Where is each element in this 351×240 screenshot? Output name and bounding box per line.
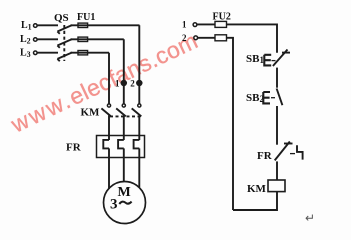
node 1 control terminal label bbox=[182, 20, 187, 30]
node 1 label bbox=[115, 79, 120, 89]
motor M bbox=[104, 182, 146, 224]
motor 3-phase tilde bbox=[119, 202, 131, 204]
wire L2 to QS bbox=[37, 38, 58, 40]
contactor KM main contact 1 bbox=[101, 104, 111, 117]
relay FR label bbox=[66, 142, 82, 154]
watermark www.elecfans.com bbox=[6, 27, 202, 138]
pushbutton SB2 (NO start button) bbox=[263, 89, 282, 106]
pushbutton SB1 label bbox=[246, 53, 264, 65]
fuse FU1 element 1 bbox=[78, 23, 88, 27]
wire SB1 to SB2 bbox=[276, 68, 278, 88]
pushbutton SB2 label bbox=[246, 92, 264, 104]
svg-text:L2: L2 bbox=[20, 34, 31, 46]
contactor KM linkage dashed line bbox=[110, 115, 141, 117]
node L2 label bbox=[20, 34, 31, 46]
svg-text:M: M bbox=[118, 185, 131, 200]
switch QS linkage dashed line bbox=[63, 25, 65, 61]
switch QS label bbox=[54, 12, 69, 24]
node 1 junction dot bbox=[122, 81, 127, 86]
return mark bbox=[305, 211, 315, 225]
coil KM bbox=[268, 180, 285, 192]
wire L3 to QS bbox=[37, 52, 58, 54]
wire SB2 to FR contact bbox=[276, 106, 278, 145]
node 2 control terminal bbox=[194, 36, 198, 40]
wire FR to motor phase1 bbox=[108, 148, 110, 189]
motor M label bbox=[110, 185, 131, 213]
svg-text:1: 1 bbox=[115, 79, 120, 89]
fuse FU2 element 2 bbox=[215, 35, 227, 41]
fuse FU1 label bbox=[77, 12, 95, 23]
relay FR contact (NC) bbox=[275, 142, 303, 161]
relay FR heater 1 bbox=[103, 140, 109, 149]
wire FR to motor phase3 bbox=[138, 148, 140, 187]
svg-text:QS: QS bbox=[54, 12, 69, 24]
svg-text:SB1: SB1 bbox=[246, 53, 264, 65]
switch QS pole 3 blade bbox=[57, 53, 72, 62]
relay FR contact label bbox=[257, 150, 273, 162]
node L2 terminal bbox=[34, 38, 38, 42]
contactor KM label bbox=[81, 107, 101, 119]
fuse FU2 label bbox=[213, 12, 231, 23]
svg-text:1: 1 bbox=[182, 20, 187, 30]
svg-text:KM: KM bbox=[247, 183, 267, 195]
pushbutton SB1 (NC stop button) bbox=[264, 50, 290, 67]
wire FU2 element2 to bottom rail bbox=[227, 38, 234, 210]
node 2 control terminal label bbox=[182, 33, 187, 43]
coil KM label bbox=[247, 183, 267, 195]
svg-text:L3: L3 bbox=[20, 48, 31, 60]
node L3 terminal bbox=[34, 51, 38, 55]
node L3 label bbox=[20, 48, 31, 60]
wire KM to FR phase3 bbox=[138, 116, 140, 141]
wire KM coil to bottom rail bbox=[233, 192, 277, 210]
contactor KM main contact 3 bbox=[132, 104, 142, 117]
fuse FU1 element 3 bbox=[78, 51, 88, 55]
wire L1 drop to KM bbox=[138, 25, 140, 104]
node L1 terminal bbox=[34, 24, 38, 28]
fuse FU2 element 1 bbox=[215, 21, 227, 27]
node 2 junction dot bbox=[137, 81, 142, 86]
wire L2 drop to KM bbox=[123, 39, 125, 104]
wire terminal1 to FU2 bbox=[197, 23, 215, 25]
node L1 label bbox=[21, 20, 32, 32]
wire QS to FU1 line1 bbox=[71, 24, 140, 26]
svg-text:2: 2 bbox=[130, 79, 135, 89]
relay FR heater 2 bbox=[118, 140, 124, 149]
wire QS to FU1 line2 bbox=[71, 38, 124, 40]
svg-text:L1: L1 bbox=[21, 20, 32, 32]
wire QS to FU1 line3 bbox=[71, 52, 110, 54]
switch QS pole 1 blade bbox=[57, 25, 72, 34]
wire terminal2 to FU2 bbox=[198, 37, 215, 39]
contactor KM main contact 2 bbox=[116, 104, 126, 117]
fuse FU1 element 2 bbox=[78, 37, 88, 41]
svg-text:SB2: SB2 bbox=[246, 92, 264, 104]
wire FR contact to KM coil bbox=[276, 161, 278, 180]
wire L1 to QS bbox=[37, 24, 58, 26]
svg-text:FR: FR bbox=[66, 142, 82, 154]
svg-text:KM: KM bbox=[81, 107, 101, 119]
relay FR heater 3 bbox=[134, 140, 140, 149]
wire KM to FR phase2 bbox=[123, 116, 125, 141]
svg-text:2: 2 bbox=[182, 33, 187, 43]
wire FU2 to SB1 bbox=[227, 24, 278, 52]
switch QS pole 2 blade bbox=[57, 39, 72, 48]
relay FR box bbox=[97, 136, 145, 158]
svg-text:FR: FR bbox=[257, 150, 273, 162]
svg-text:www.: www. bbox=[6, 86, 76, 138]
node 1 control terminal bbox=[193, 23, 197, 27]
wire FR to motor phase2 bbox=[123, 148, 125, 181]
svg-text:3: 3 bbox=[110, 196, 118, 212]
wire KM to FR phase1 bbox=[108, 116, 110, 141]
node 2 label bbox=[130, 79, 135, 89]
svg-text:FU1: FU1 bbox=[77, 12, 95, 23]
wire L3 drop to KM bbox=[108, 53, 110, 104]
